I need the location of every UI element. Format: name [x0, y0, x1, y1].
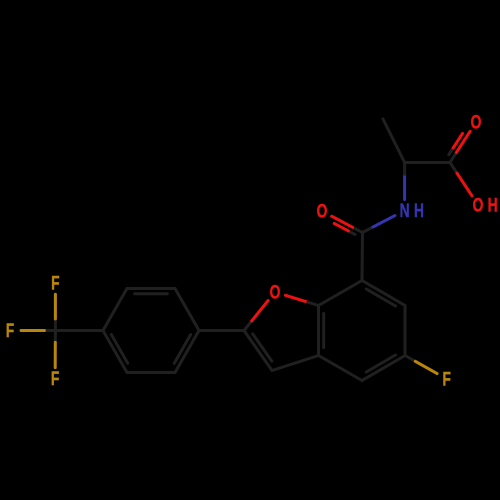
svg-text:F: F	[51, 272, 59, 294]
svg-text:O: O	[270, 281, 281, 303]
svg-text:H: H	[488, 194, 498, 216]
svg-text:O: O	[471, 111, 482, 133]
svg-text:F: F	[6, 320, 14, 342]
svg-text:N: N	[400, 200, 410, 222]
svg-text:H: H	[414, 200, 424, 222]
svg-text:F: F	[442, 368, 450, 390]
svg-text:O: O	[473, 194, 484, 216]
svg-text:F: F	[51, 368, 59, 390]
svg-text:O: O	[317, 200, 328, 222]
